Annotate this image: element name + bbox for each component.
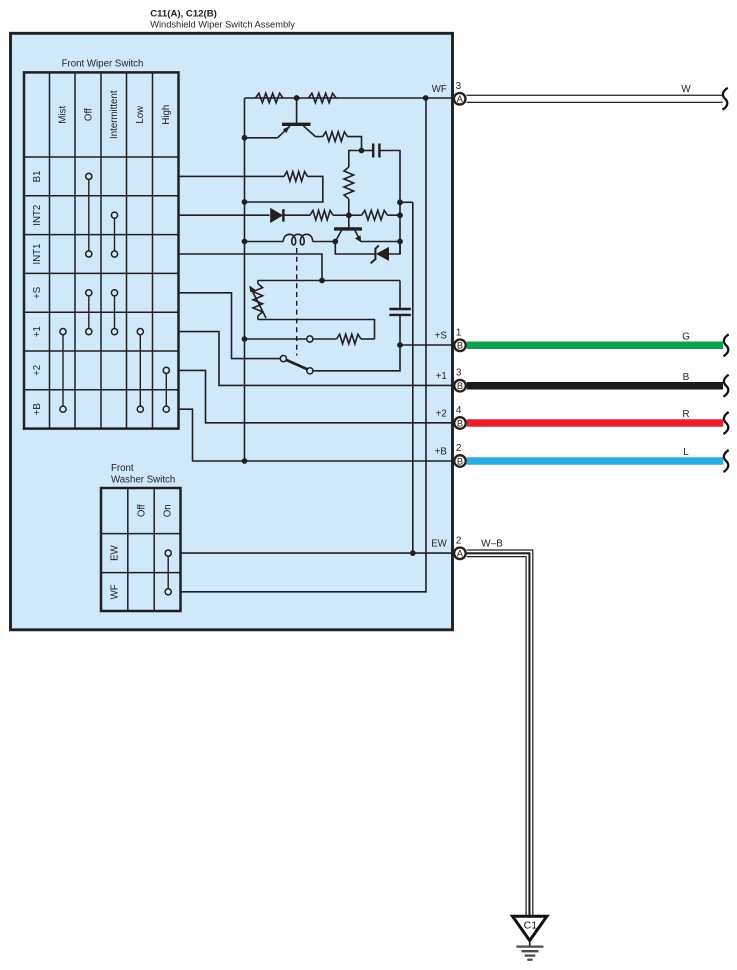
wire washer EW row to pin — [181, 552, 453, 554]
svg-text:Low: Low — [135, 105, 146, 124]
transistor Q2 — [334, 215, 362, 242]
wire right rail to EW riser — [400, 201, 413, 203]
junction node N2 — [359, 148, 365, 154]
contact circle col1 row6 — [60, 406, 66, 412]
inductor L1 relay coil — [283, 234, 312, 245]
svg-text:2: 2 — [456, 443, 462, 454]
svg-text:L: L — [683, 447, 689, 458]
contact link col2 rows0-2 — [88, 180, 90, 251]
junction right rail/EW branch — [397, 199, 403, 205]
variable resistor VR1 — [249, 281, 266, 320]
junction WF riser / top wire — [423, 95, 429, 101]
capacitor C3 — [373, 144, 379, 158]
wire R (colored) — [467, 412, 729, 434]
contact circle col1 row4 — [60, 329, 66, 335]
wire C3 right plate to right rail — [380, 151, 400, 255]
resistor R4 — [344, 167, 354, 199]
junction C4/+S line — [397, 342, 403, 348]
wire +B row to pin — [179, 409, 453, 461]
svg-text:C11(A), C12(B): C11(A), C12(B) — [150, 8, 217, 19]
contact link col5 rows5-6 — [165, 374, 167, 407]
svg-text:1: 1 — [456, 327, 462, 338]
svg-text:+1: +1 — [32, 326, 43, 337]
wire B (colored) — [467, 375, 729, 397]
svg-text:C1: C1 — [524, 919, 538, 931]
wire +S row to arm pivot — [179, 293, 281, 359]
contact circle on R8 line — [307, 336, 313, 342]
transistor Q1 — [278, 98, 316, 138]
switch arm pivot circle — [280, 356, 286, 362]
switch arm SW1 — [286, 360, 308, 370]
wire zener to right rail — [389, 242, 400, 255]
svg-text:+S: +S — [32, 286, 43, 299]
wire node N1 to R7 — [349, 214, 362, 216]
svg-text:+2: +2 — [436, 408, 447, 419]
dashed mechanical link — [296, 248, 298, 356]
contact circle col3 row3 — [111, 290, 117, 296]
junction node N1 — [346, 212, 352, 218]
resistor R1 — [256, 93, 284, 103]
svg-text:INT2: INT2 — [32, 205, 43, 226]
wire coil L1 to Q2 collector — [313, 241, 336, 243]
junction EW riser/EW line — [410, 550, 416, 556]
svg-text:B: B — [457, 456, 463, 466]
svg-text:Intermittent: Intermittent — [109, 90, 120, 139]
svg-text:W–B: W–B — [481, 539, 503, 550]
wire EW riser (vertical) — [412, 202, 414, 553]
wire rail to coil L1 — [245, 241, 284, 243]
connector pin +B terminal 2 — [454, 455, 466, 467]
wire R5 wrap to rail — [245, 176, 323, 202]
wire +1 row to pin — [179, 332, 453, 386]
front washer switch table frame — [101, 488, 181, 611]
svg-text:B: B — [683, 372, 690, 383]
wire VR line to C4 top plate — [399, 281, 401, 309]
wire Q1 emitter to rail — [245, 137, 278, 139]
wire R6 to node N1 — [333, 214, 349, 216]
wire Q2 emitter to right rail — [361, 241, 400, 243]
junction rail/emitter — [242, 135, 248, 141]
connector pin EW terminal 2 — [454, 548, 466, 560]
svg-text:3: 3 — [456, 368, 462, 379]
contact circle col2 row2 — [86, 251, 92, 257]
wire B1 row to R5 — [179, 175, 285, 177]
wire +2 row to pin — [179, 370, 453, 422]
junction rail/+B line — [242, 458, 248, 464]
svg-text:B1: B1 — [32, 170, 43, 182]
contact circle col2 row0 — [86, 173, 92, 179]
front wiper switch table frame — [24, 72, 179, 428]
resistor R5 — [284, 172, 308, 182]
svg-text:A: A — [457, 549, 464, 559]
svg-text:+S: +S — [435, 331, 448, 342]
svg-text:B: B — [457, 381, 463, 391]
contact circle col4 row4 — [137, 329, 143, 335]
contact link washer On — [167, 556, 169, 589]
junction INT1/VR line — [319, 278, 325, 284]
svg-text:B: B — [457, 341, 463, 351]
wire L (colored) — [467, 450, 729, 472]
svg-text:2: 2 — [456, 535, 462, 546]
wire node N2 to R4 top — [349, 151, 362, 168]
junction rail/coil — [242, 239, 248, 245]
svg-text:G: G — [682, 331, 690, 342]
wire VR top line — [258, 280, 400, 282]
contact circle col3 row2 — [111, 251, 117, 257]
connector pin WF terminal 3 — [454, 93, 466, 105]
svg-text:Windshield Wiper Switch Assemb: Windshield Wiper Switch Assembly — [150, 20, 295, 30]
wire C4 bottom plate to +S node — [399, 316, 401, 345]
contact circle col2 row4 — [86, 329, 92, 335]
wire W-B (white-black) from EW — [467, 550, 533, 916]
svg-text:+B: +B — [32, 403, 43, 415]
svg-text:WF: WF — [110, 584, 121, 599]
resistor R2 — [309, 93, 337, 103]
wire rail to contact — [245, 338, 307, 340]
wire +S node to pin — [400, 344, 453, 346]
wire +B rail (left vertical) — [244, 98, 246, 461]
connector pin +1 terminal 3 — [454, 380, 466, 392]
contact circle col5 row6 — [163, 406, 169, 412]
svg-text:Front Wiper Switch: Front Wiper Switch — [62, 58, 144, 69]
wire D1 to R6 — [283, 214, 310, 216]
wire washer WF row riser to WF line — [181, 98, 427, 592]
wire INT1 row to VR node — [179, 254, 323, 281]
contact circle col3 row1 — [111, 212, 117, 218]
svg-text:Off: Off — [136, 504, 147, 517]
resistor R3 — [323, 132, 348, 142]
svg-text:Off: Off — [83, 108, 94, 121]
wire R4 bottom to node N1 — [348, 199, 350, 215]
capacitor C4 — [389, 309, 411, 315]
ground C1 — [513, 916, 547, 959]
svg-text:4: 4 — [456, 405, 462, 416]
wire W (white) from WF — [467, 88, 728, 110]
svg-text:3: 3 — [456, 81, 462, 92]
connector pin +2 terminal 4 — [454, 417, 466, 429]
svg-text:+2: +2 — [32, 365, 43, 376]
contact circle col4 row6 — [137, 406, 143, 412]
contact link col1 rows4-6 — [62, 335, 64, 406]
contact link col4 rows4-6 — [139, 335, 141, 406]
contact circle col2 row3 — [86, 290, 92, 296]
resistor R6 — [310, 210, 333, 220]
svg-text:EW: EW — [431, 539, 447, 550]
wire VR bottom to R8 line — [258, 320, 375, 340]
wire N2 to C3 left plate — [362, 150, 373, 152]
junction rail/B1 wrap — [242, 199, 248, 205]
svg-text:Front: Front — [111, 463, 134, 474]
wire top +B feed to WF — [245, 97, 453, 99]
wire Q1 collector to R3 — [316, 136, 323, 138]
resistor R7 — [362, 210, 388, 220]
svg-text:High: High — [161, 105, 172, 125]
contact link col2 rows3-4 — [88, 296, 90, 329]
diode D1 — [270, 208, 283, 223]
contact circle washer WF-On — [165, 589, 171, 595]
svg-text:W: W — [681, 84, 691, 95]
junction right rail/emitter — [397, 239, 403, 245]
contact link col3 rows3-4 — [114, 296, 116, 329]
contact circle washer EW-On — [165, 550, 171, 556]
wire G (colored) — [467, 334, 729, 356]
contact link col3 rows1-2 — [114, 218, 116, 251]
junction Q1 base / top wire — [294, 95, 300, 101]
wire INT2 row to diode D1 — [179, 214, 270, 216]
connector pin +S terminal 1 — [454, 340, 466, 352]
contact circle col5 row5 — [163, 367, 169, 373]
wire Q2 collector to zener — [335, 242, 374, 255]
svg-text:Washer Switch: Washer Switch — [111, 475, 175, 486]
switch arm contact circle — [307, 368, 313, 374]
svg-text:EW: EW — [110, 544, 121, 560]
svg-text:INT1: INT1 — [32, 244, 43, 265]
svg-text:B: B — [457, 418, 463, 428]
svg-text:Mist: Mist — [58, 106, 69, 124]
zener diode ZD1 — [371, 245, 389, 263]
junction right rail/R7 — [397, 212, 403, 218]
wire R8 to corner — [361, 338, 375, 340]
junction coil/collector — [332, 239, 338, 245]
wire R7 to right rail — [388, 214, 401, 216]
svg-text:A: A — [457, 94, 464, 104]
svg-text:R: R — [682, 409, 689, 420]
svg-text:+B: +B — [435, 446, 447, 457]
svg-text:WF: WF — [432, 84, 447, 95]
wire +S node down to arm contact — [313, 345, 400, 371]
resistor R8 — [337, 334, 362, 344]
wire R3 to node N2 — [348, 137, 362, 151]
wire contact to R8 — [313, 338, 337, 340]
svg-text:On: On — [163, 504, 174, 517]
connector box C11/C12 Windshield Wiper Switch Assembly — [11, 33, 453, 630]
svg-text:+1: +1 — [436, 371, 447, 382]
contact circle col3 row4 — [111, 329, 117, 335]
junction rail/contact line — [242, 336, 248, 342]
